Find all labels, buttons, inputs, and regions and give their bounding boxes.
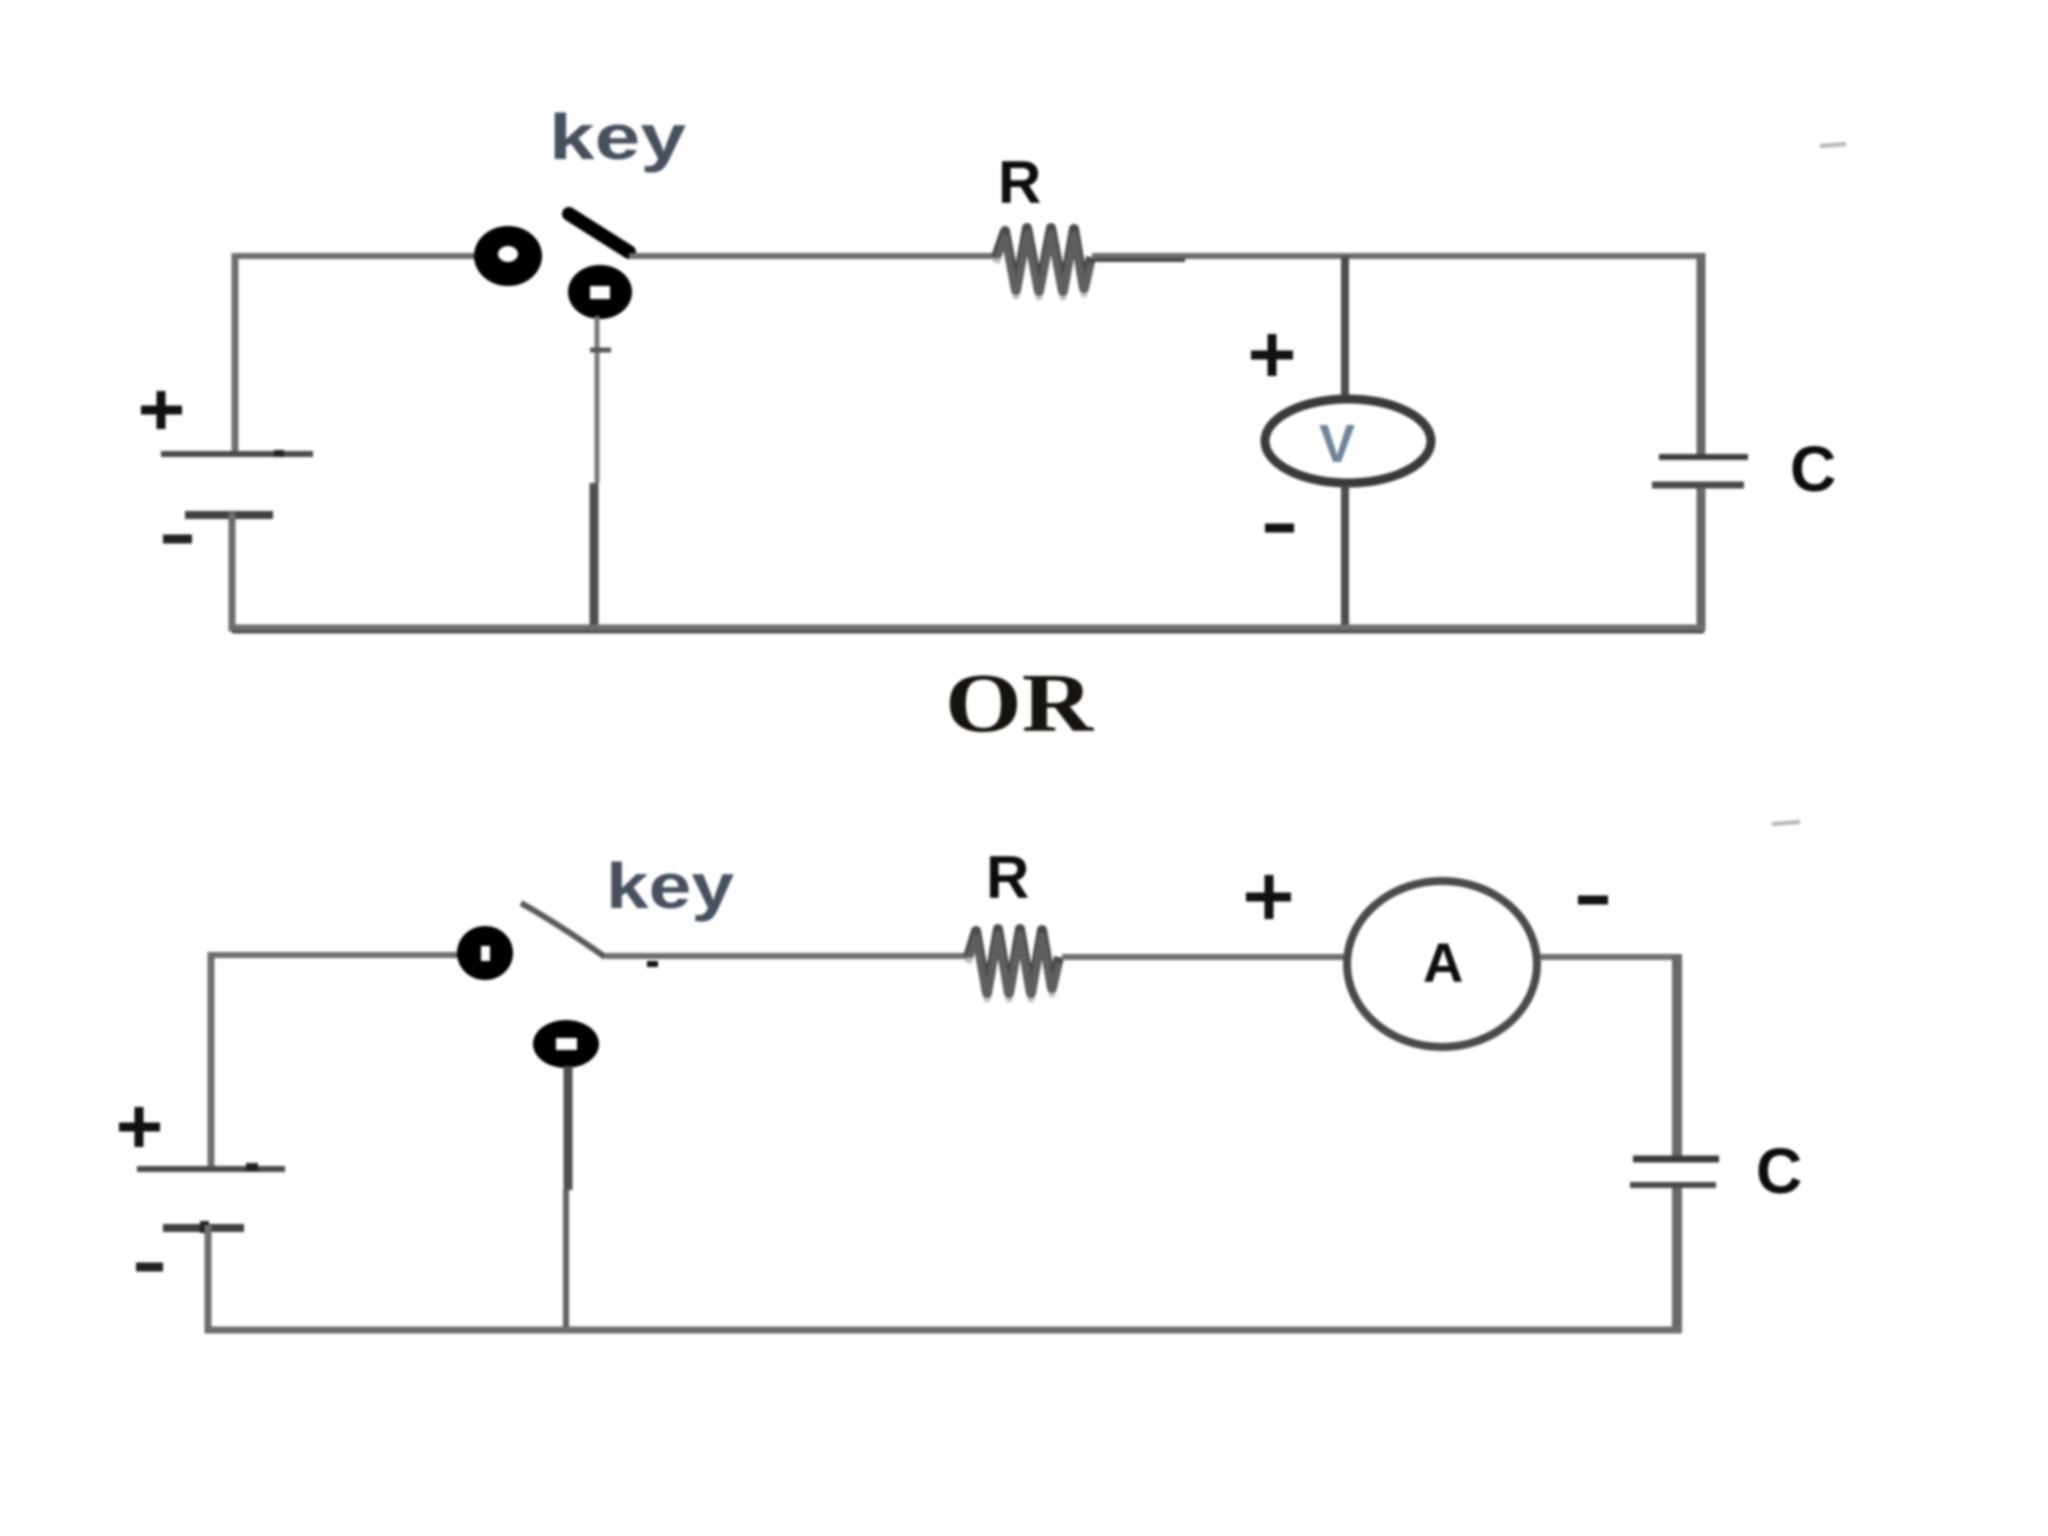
battery B1 plate tick <box>274 450 284 457</box>
wire: right vertical lower (capacitor to bottom rail) <box>1672 1188 1682 1333</box>
resistor R (bottom circuit) zigzag body <box>968 929 1059 993</box>
svg-text:R: R <box>986 844 1029 911</box>
wire: darker segment right of resistor <box>1095 258 1185 262</box>
wire: right vertical upper (to capacitor) <box>1672 954 1682 1157</box>
battery B2 polarity - label <box>136 1263 163 1272</box>
small contact dot on wire right of blade <box>647 961 658 967</box>
wire: top rail from resistor to top-right corner <box>1092 253 1703 259</box>
wire: right vertical lower (capacitor to bottom rail) <box>1697 488 1706 631</box>
wire: key terminal 2 lead down to bottom rail junction <box>564 1066 573 1190</box>
wire: bottom rail (top circuit) <box>229 625 1704 632</box>
wire: left vertical (battery positive lead) <box>208 952 215 1170</box>
wire: top rail left segment (battery + to key terminal 1) <box>208 952 465 958</box>
svg-text:key: key <box>549 101 687 173</box>
battery B1 polarity - label <box>163 535 192 544</box>
battery B1 negative plate (short) <box>185 511 273 519</box>
ammeter A1 body <box>1347 881 1537 1047</box>
key S1 terminal 2 (plug socket) <box>568 265 632 319</box>
voltmeter polarity + label <box>1251 351 1293 360</box>
wire: key terminal 2 lead down (upper thin part) <box>595 316 600 483</box>
svg-text:OR: OR <box>945 657 1095 750</box>
wire: battery negative lead down to bottom rail <box>229 512 236 631</box>
battery B2 positive plate (long) <box>137 1166 285 1172</box>
voltmeter polarity - label <box>1265 524 1294 533</box>
battery B2 negative plate (short) <box>163 1224 244 1232</box>
svg-text:R: R <box>998 149 1041 216</box>
capacitor C (top circuit) upper plate <box>1659 454 1748 460</box>
wire: right vertical upper (top rail to capacitor) <box>1697 253 1706 455</box>
resistor R (top circuit) zigzag body <box>996 228 1091 291</box>
wire: battery negative lead down to bottom rail <box>205 1225 212 1333</box>
key S2 blade (open switch lever) <box>521 903 605 957</box>
wire: voltmeter branch upper lead <box>1341 256 1349 400</box>
battery B2 polarity + label <box>119 1123 160 1132</box>
capacitor C (top circuit) lower plate <box>1652 482 1744 489</box>
key S2 terminal 1 (plug socket) <box>457 926 513 980</box>
wire: top rail from resistor to ammeter <box>1062 954 1345 960</box>
wire: top rail from key blade to resistor <box>629 253 998 259</box>
tick on key lead <box>590 348 611 353</box>
battery B1 positive plate (long) <box>161 451 313 457</box>
wire: key terminal 2 lead down (lower thick part) to bottom rail junction <box>590 483 599 631</box>
stray mark upper right (bottom circuit) <box>1772 822 1800 824</box>
stray mark upper right <box>1820 144 1846 146</box>
battery B2 short plate tick <box>200 1221 209 1233</box>
svg-text:V: V <box>1319 414 1355 474</box>
battery B2 plate tick <box>246 1163 258 1171</box>
svg-text:C: C <box>1756 1135 1802 1207</box>
svg-text:C: C <box>1790 433 1836 505</box>
capacitor C (bottom circuit) upper plate <box>1633 1156 1719 1163</box>
wire: bottom rail darker under-edge <box>232 631 1704 634</box>
svg-text:A: A <box>1423 931 1463 994</box>
voltmeter V1 body <box>1265 399 1431 483</box>
key S1 terminal 1 (plug socket) <box>474 226 542 286</box>
key S2 terminal 2 (plug socket) <box>533 1020 599 1068</box>
wire: bottom rail (bottom circuit) <box>205 1327 1681 1334</box>
wire: voltmeter branch lower lead to bottom rail junction <box>1341 486 1349 631</box>
wire: top rail from ammeter to top-right corner <box>1540 954 1680 960</box>
ammeter polarity - label <box>1578 896 1608 905</box>
battery B1 polarity + label <box>141 406 182 415</box>
capacitor C (bottom circuit) lower plate <box>1630 1182 1716 1188</box>
svg-text:key: key <box>606 850 734 922</box>
key S1 blade (open switch lever) <box>569 214 629 252</box>
wire: left vertical (battery positive lead) <box>232 253 239 456</box>
wire: top rail left segment (battery + to key terminal 1) <box>232 253 480 259</box>
ammeter polarity + label <box>1246 893 1291 902</box>
wire: top rail from key blade to resistor <box>605 953 968 959</box>
